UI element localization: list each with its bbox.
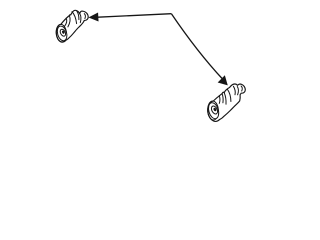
clip 1 shank band 2 [68,16,70,27]
clip 2 mouth outer rim ellipse [207,101,219,121]
arrowhead 2 (points down-right at clip 2) [218,76,227,85]
clip 1 tip end face [84,14,85,19]
clip 1 hole ring [59,28,67,37]
clip 1 mouth outer rim ellipse [55,24,67,42]
clip 2 tip end face [241,86,242,91]
arrow [90,13,228,85]
clip 2 shank band 2 [222,94,223,103]
clip 1 hole dark center [62,31,65,34]
clip 1 head band 2 [77,11,79,20]
clip 1 body silhouette [56,10,88,42]
wire: horizontal segment [98,14,172,18]
clip grommet 1 (top-left) [55,10,88,42]
clip 2 head band 2 [233,86,235,95]
clip 2 shank band 3 [224,93,226,105]
clip 2 hole ring [210,105,219,115]
clip 2 head band 1 [227,89,231,101]
clip 1 head band 1 [72,12,77,24]
clip 1 mouth inner rim [56,25,69,42]
clip 2 hole dark center [213,108,216,112]
wire: diagonal segment [171,14,223,80]
arrowhead 1 (points left at clip 1) [90,13,99,21]
clip 1 shank band 1 [64,18,67,27]
clip 2 shank band 1 [218,96,221,104]
clip 2 mouth inner rim [207,102,221,120]
clip 2 tip boundary band [237,87,238,95]
clip 1 tip boundary band [80,14,81,23]
clip grommet 2 (bottom-right) [207,84,245,121]
clip 2 body silhouette [208,84,245,121]
